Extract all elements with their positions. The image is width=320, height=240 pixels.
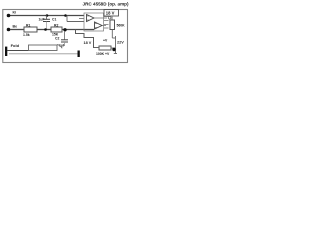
svg-text:Be: Be bbox=[13, 25, 18, 29]
svg-text:Ki: Ki bbox=[13, 11, 17, 15]
svg-text:560K: 560K bbox=[117, 24, 126, 28]
svg-text:1.5k: 1.5k bbox=[23, 33, 30, 37]
svg-text:18 V: 18 V bbox=[84, 41, 92, 45]
svg-text:JRC 4558D (op. amp): JRC 4558D (op. amp) bbox=[83, 1, 129, 6]
svg-text:Fold: Fold bbox=[11, 43, 20, 48]
svg-text:22V: 22V bbox=[117, 41, 124, 45]
svg-text:C2: C2 bbox=[55, 37, 59, 41]
svg-text:+V: +V bbox=[103, 39, 108, 43]
svg-text:1uF: 1uF bbox=[39, 18, 45, 22]
svg-text:18 V: 18 V bbox=[106, 10, 115, 15]
svg-text:C1: C1 bbox=[52, 18, 56, 22]
svg-text:100K +V: 100K +V bbox=[96, 52, 110, 56]
